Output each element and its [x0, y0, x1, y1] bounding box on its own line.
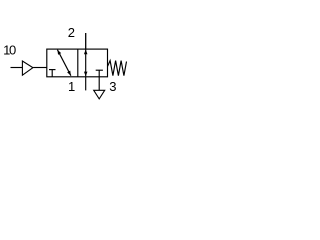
svg-text:10: 10 [3, 43, 16, 58]
svg-text:2: 2 [68, 25, 75, 40]
svg-text:3: 3 [109, 79, 116, 94]
svg-text:1: 1 [68, 79, 75, 94]
